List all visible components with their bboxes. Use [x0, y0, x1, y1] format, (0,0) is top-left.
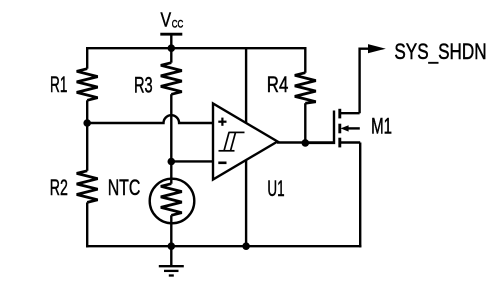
node R1/R2/+input junction — [83, 119, 91, 127]
ground stub — [170, 246, 172, 266]
wire comparator ground pin to bottom rail — [245, 160, 247, 247]
node Vcc/R3 junction — [168, 44, 176, 52]
wire R1 bottom lead — [86, 100, 88, 124]
wire M1 source down to bottom rail — [359, 143, 361, 248]
wire inverting input — [171, 160, 213, 162]
resistor R4 — [295, 73, 316, 104]
op-amp U1 hysteresis symbol — [219, 132, 245, 150]
svg-text:NTC: NTC — [108, 175, 141, 200]
transistor M1 source connection — [341, 141, 361, 143]
transistor M1 body arrow — [341, 125, 360, 131]
wire R3 top lead — [170, 47, 172, 63]
resistor R3 — [161, 63, 182, 95]
transistor M1 channel segment top — [338, 109, 341, 119]
Vcc terminal T-bar — [160, 33, 182, 36]
svg-text:U1: U1 — [267, 176, 284, 201]
transistor M1 channel segment middle — [338, 124, 341, 134]
thermistor NTC element — [161, 184, 182, 216]
wire comparator supply pin from top rail — [245, 48, 247, 123]
svg-text:V: V — [161, 10, 172, 32]
op-amp U1 plus input marking — [218, 118, 226, 126]
Vcc label — [161, 10, 184, 32]
svg-text:R4: R4 — [267, 72, 289, 97]
transistor M1 gate wire — [305, 111, 334, 143]
node NTC/ground junction — [168, 242, 176, 250]
resistor R1 — [77, 69, 98, 101]
wire bottom rail — [86, 245, 361, 247]
node R3/NTC/-input junction — [168, 158, 176, 166]
transistor M1 drain connection — [341, 112, 360, 114]
resistor R2 — [77, 171, 98, 203]
wire R1 top lead — [86, 47, 88, 69]
wire R2 top lead — [86, 122, 88, 171]
op-amp U1 minus input marking — [218, 162, 226, 165]
op-amp U1 comparator triangle — [213, 104, 278, 180]
transistor M1 channel segment bottom — [338, 138, 341, 148]
wire R3 bottom lead to NTC — [170, 94, 172, 183]
wire Vcc stub down to top rail — [170, 34, 172, 48]
node comparator ground junction — [242, 242, 250, 250]
svg-text:CC: CC — [172, 18, 184, 30]
wire NTC bottom lead — [170, 215, 172, 246]
svg-text:SYS_SHDN: SYS_SHDN — [394, 39, 486, 64]
svg-text:R2: R2 — [50, 175, 68, 200]
svg-text:R3: R3 — [134, 72, 153, 97]
wire noninverting input with hop over R3 line — [87, 115, 213, 123]
thermistor NTC circle — [150, 179, 195, 224]
wire R2 bottom lead — [86, 202, 88, 247]
node output/R4/gate junction — [302, 139, 310, 147]
svg-text:R1: R1 — [50, 72, 67, 97]
wire M1 drain up to output arrow — [360, 49, 369, 114]
ground symbol — [159, 266, 184, 275]
SYS_SHDN arrowhead — [368, 44, 386, 53]
wire comparator output — [277, 141, 334, 143]
wire top rail — [86, 47, 305, 49]
wire R4 bottom lead — [304, 103, 306, 143]
svg-text:M1: M1 — [371, 113, 392, 138]
wire R4 top lead from rail — [304, 48, 305, 72]
